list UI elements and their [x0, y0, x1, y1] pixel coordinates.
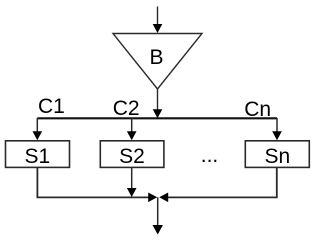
- svg-text:S1: S1: [24, 145, 50, 168]
- arrowhead left into junction: [159, 193, 168, 203]
- block B (inverted triangle): [113, 34, 202, 90]
- arrowhead into Sn: [272, 131, 282, 140]
- wire: bus drop to S1: [36, 118, 38, 132]
- wire: bus drop to S2: [131, 118, 133, 132]
- arrowhead into S1: [33, 131, 43, 140]
- wire: junction output down: [157, 197, 159, 226]
- arrowhead right into junction: [148, 193, 157, 203]
- svg-text:C2: C2: [113, 97, 140, 120]
- output arrowhead: [153, 225, 163, 235]
- block S1: [6, 141, 70, 168]
- arrowhead into top of B: [153, 24, 163, 33]
- svg-text:C1: C1: [38, 95, 65, 118]
- svg-text:...: ...: [201, 144, 219, 167]
- svg-text:Cn: Cn: [244, 98, 271, 121]
- wire: B apex down to bus: [157, 89, 159, 110]
- arrowhead into S2: [127, 131, 137, 140]
- arrowhead down onto junction line: [127, 188, 137, 197]
- wire: S2 down to junction line: [131, 168, 133, 189]
- svg-text:S2: S2: [119, 145, 145, 168]
- wire: S1 down and right to junction: [37, 168, 149, 198]
- wire: bus drop to Sn: [276, 118, 278, 132]
- wire: horizontal distribution bus: [37, 117, 277, 119]
- svg-text:B: B: [149, 46, 163, 69]
- wire: Sn down and left to junction: [168, 168, 277, 198]
- block Sn: [245, 141, 309, 168]
- wire: top input line into B: [157, 7, 159, 26]
- arrowhead onto bus: [153, 109, 163, 118]
- block S2: [100, 141, 164, 168]
- svg-text:Sn: Sn: [264, 145, 290, 168]
